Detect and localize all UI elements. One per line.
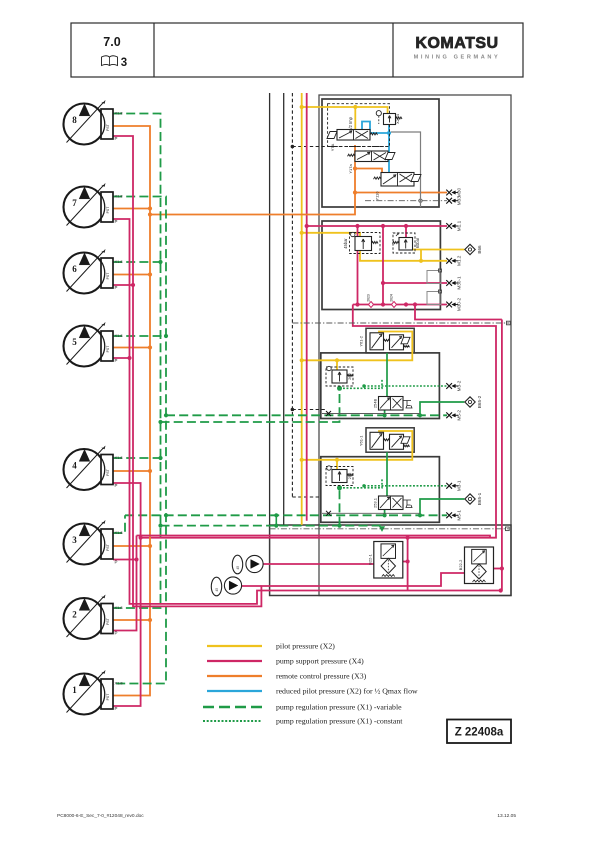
wire X4 pump7 trunk bbox=[113, 219, 501, 604]
svg-text:pump regulation pressure (X1): pump regulation pressure (X1) -variable bbox=[276, 703, 402, 712]
V1 junction p4 bbox=[158, 456, 162, 460]
wire X1 const to 252l bbox=[340, 479, 383, 488]
book icon bbox=[102, 56, 118, 66]
test point M30-1 bbox=[446, 280, 452, 286]
svg-text:13.12.05: 13.12.05 bbox=[497, 813, 516, 819]
X3 junction y620 bbox=[148, 618, 152, 622]
M5-1 junction b bbox=[418, 513, 422, 517]
gray accumulator 1 bbox=[427, 271, 441, 284]
wire X2 wrap Y61-1 bbox=[302, 431, 413, 460]
test point M5-1 bbox=[446, 512, 452, 518]
gray accumulator 2 bbox=[427, 292, 441, 305]
relief valve 45bar bbox=[350, 233, 381, 254]
wire X3 pump stub y208.5 bbox=[113, 208, 150, 210]
test point M5-2 bbox=[446, 412, 452, 418]
wire X1 pump6 stub bbox=[113, 261, 161, 263]
wire X4 mid drop bbox=[382, 226, 384, 305]
closed port lower bbox=[326, 511, 331, 516]
wire X1 const M3-1 bbox=[364, 485, 447, 487]
filter unit B22-2 bbox=[465, 547, 494, 584]
leakage line y529 bbox=[270, 528, 509, 530]
wire X1 254B out bbox=[384, 410, 386, 415]
X3 branch junction bbox=[148, 212, 152, 216]
X4 p3 junction bbox=[134, 557, 138, 561]
wire X3 pump stub y274.5 bbox=[113, 274, 150, 276]
pressure supply block 2 bbox=[322, 221, 440, 310]
M5-1 junction link bbox=[274, 513, 278, 517]
legend reduced pilot line bbox=[207, 690, 262, 692]
header divider 1 bbox=[153, 23, 155, 77]
svg-text:2623: 2623 bbox=[367, 294, 371, 302]
X2 junction e bbox=[300, 358, 304, 362]
wire X2 branch block2 bbox=[302, 233, 447, 261]
svg-text:2624: 2624 bbox=[390, 294, 394, 302]
M30-2 junction a bbox=[355, 302, 359, 306]
svg-text:Z 22408a: Z 22408a bbox=[455, 727, 504, 739]
wire X2half loop bbox=[362, 122, 389, 134]
wire X2 link to M1.2 bbox=[420, 250, 422, 261]
svg-text:M30: M30 bbox=[457, 188, 462, 198]
X2 junction a bbox=[300, 105, 304, 109]
proportional valve Y61-1 bbox=[370, 432, 384, 449]
drain branch to valve 262 bbox=[292, 409, 326, 411]
valve box Y61-1 bbox=[366, 428, 414, 452]
wire X4 trunk bbox=[306, 93, 308, 521]
closed line lower bbox=[322, 512, 420, 514]
wire X4 to M1.1 bbox=[307, 225, 447, 227]
wire X4 down right A bbox=[415, 305, 502, 320]
valve box Y61-2 bbox=[366, 328, 414, 353]
pump 3 bbox=[64, 524, 105, 565]
wire X1 spur B65-2 bbox=[420, 402, 464, 415]
closed port upper bbox=[326, 411, 331, 416]
V2 junction h415 bbox=[164, 413, 168, 417]
svg-text:P: P bbox=[115, 285, 118, 290]
M30-2 junction c bbox=[404, 302, 408, 306]
wire X4 down right B bbox=[141, 305, 496, 538]
gray box block1 bbox=[391, 132, 421, 207]
X3 junction y274.5 bbox=[148, 272, 152, 276]
svg-text:B65-1: B65-1 bbox=[477, 492, 482, 505]
main manifold outer boundary bbox=[319, 95, 511, 596]
wire M30-1 bbox=[383, 282, 447, 284]
wire X4 pump5 stub bbox=[113, 357, 130, 359]
gauge pair 2 bbox=[211, 577, 221, 596]
svg-text:X1.8: X1.8 bbox=[115, 194, 123, 199]
wire X2 drop to Y7A bbox=[354, 107, 356, 130]
X1 y525 junction bbox=[337, 524, 341, 528]
wire X4 pump3-2 trunk bbox=[113, 536, 137, 631]
pressure reducing valve X2/64 bbox=[376, 111, 381, 116]
svg-text:7: 7 bbox=[72, 198, 77, 208]
wire X1 const M3-2 bbox=[364, 385, 447, 387]
closed line upper bbox=[322, 413, 420, 415]
M1.1 junction c bbox=[404, 224, 408, 228]
drain line dashed bbox=[291, 93, 293, 497]
dashed pilot box block1 bbox=[328, 104, 390, 147]
proportional valve Y61-2 bbox=[370, 333, 384, 350]
svg-text:254B: 254B bbox=[372, 398, 377, 408]
tank line T1 bbox=[269, 93, 271, 525]
X2half junction bbox=[387, 131, 391, 135]
V1 junction h2 bbox=[158, 420, 162, 424]
B22 feed junction b bbox=[406, 559, 410, 563]
svg-text:M5-1: M5-1 bbox=[457, 510, 462, 521]
X4 right junction a bbox=[500, 566, 504, 570]
pump 6 bbox=[64, 253, 105, 294]
svg-text:P: P bbox=[115, 706, 118, 711]
svg-text:1/2 Imp: 1/2 Imp bbox=[348, 116, 353, 131]
svg-text:PST: PST bbox=[106, 543, 110, 551]
drawing number box bbox=[447, 720, 511, 744]
V1 junction h525 bbox=[158, 524, 162, 528]
svg-text:M30-1: M30-1 bbox=[457, 276, 462, 290]
X4 p5 junction bbox=[127, 356, 131, 360]
wire X1 branch y422 bbox=[161, 388, 340, 422]
svg-text:M5-2: M5-2 bbox=[457, 410, 462, 421]
drain branch to valve 252 bbox=[292, 496, 320, 498]
wire X3 trunk bbox=[113, 126, 150, 696]
svg-text:X1.8: X1.8 bbox=[115, 530, 123, 535]
svg-text:253.1: 253.1 bbox=[372, 497, 377, 508]
wire X3 pump stub y471 bbox=[113, 470, 150, 472]
wire X3 pump stub y347.5 bbox=[113, 347, 150, 349]
pressure reducing valve 262 bbox=[326, 367, 353, 386]
test point M3-2 bbox=[446, 383, 452, 389]
wire X4 B22-2 right bbox=[492, 568, 502, 570]
svg-text:KOMATSU: KOMATSU bbox=[415, 35, 498, 52]
X3 junction y546 bbox=[148, 544, 152, 548]
measuring line M33 bbox=[365, 200, 447, 202]
X3 junction y471 bbox=[148, 469, 152, 473]
pump 5 bbox=[64, 326, 105, 367]
X3 junction y208.5 bbox=[148, 206, 152, 210]
svg-text:PST: PST bbox=[106, 272, 110, 280]
svg-text:45: 45 bbox=[236, 566, 240, 570]
wire X3 to Y110 bbox=[355, 169, 382, 173]
wire X1 pump4 stub bbox=[113, 457, 161, 459]
test point M3-1 bbox=[446, 483, 452, 489]
legend regulation variable line bbox=[203, 706, 262, 708]
wire X1 pump3 riser bbox=[113, 515, 125, 533]
svg-text:Y17a: Y17a bbox=[348, 164, 353, 174]
svg-text:B22-2: B22-2 bbox=[458, 559, 463, 570]
M1.1 junction a bbox=[355, 224, 359, 228]
drain junction 2 bbox=[291, 408, 295, 412]
svg-text:PST: PST bbox=[106, 468, 110, 476]
wire X4 B22-1 right stub bbox=[403, 561, 408, 563]
pump 2 bbox=[64, 598, 105, 639]
X1 y525 end arrow bbox=[380, 527, 385, 531]
leakage line y529 port bbox=[506, 527, 510, 531]
M5-1 junction a bbox=[383, 513, 387, 517]
tank line T2 bbox=[283, 93, 285, 525]
svg-text:B65-2: B65-2 bbox=[477, 395, 482, 408]
svg-text:P: P bbox=[115, 483, 118, 488]
wire X1 trunk V1 bbox=[113, 114, 161, 609]
wire X1 trunk V2 bbox=[113, 197, 166, 684]
regulation block upper bbox=[321, 353, 440, 419]
leakage line y323 port bbox=[507, 321, 511, 325]
solenoid valve Y17a bbox=[355, 151, 388, 162]
orifice 2623 bbox=[368, 302, 373, 308]
svg-text:reduced pilot pressure (X2) fo: reduced pilot pressure (X2) for ½ Qmax f… bbox=[276, 687, 418, 696]
X2 junction d bbox=[419, 259, 423, 263]
legend pilot pressure line bbox=[207, 645, 262, 647]
wire X2half from valve X2/64 bbox=[388, 124, 390, 133]
leakage line y323 bbox=[292, 322, 509, 324]
wire X2 trunk bbox=[301, 93, 303, 525]
wire X4 gauge1 line bbox=[263, 563, 374, 565]
svg-text:M1.2: M1.2 bbox=[457, 255, 462, 266]
svg-text:X1.8: X1.8 bbox=[115, 605, 123, 610]
wire X3 to M30 bbox=[355, 192, 447, 194]
svg-text:5: 5 bbox=[72, 337, 77, 347]
svg-text:M1.1: M1.1 bbox=[457, 220, 462, 231]
X1 junction Y61-1 zone bbox=[337, 485, 342, 490]
pressure switch B66 bbox=[465, 244, 475, 254]
svg-text:X1.8: X1.8 bbox=[115, 111, 123, 116]
solenoid valve Y7A bbox=[337, 130, 370, 141]
X1 junction Y61-2 zone bbox=[337, 386, 342, 391]
svg-text:MINING GERMANY: MINING GERMANY bbox=[414, 55, 501, 61]
svg-text:P: P bbox=[115, 358, 118, 363]
svg-text:PST: PST bbox=[106, 345, 110, 353]
svg-text:P: P bbox=[115, 560, 118, 565]
svg-text:PC8000-6-E_Sec_7-0_#12048_rev0: PC8000-6-E_Sec_7-0_#12048_rev0.doc bbox=[57, 813, 144, 819]
B22 feed junction a bbox=[406, 536, 410, 540]
svg-text:pilot pressure (X2): pilot pressure (X2) bbox=[276, 642, 335, 651]
M33 port circle bbox=[419, 199, 422, 202]
wire X3 into block1 bbox=[150, 145, 355, 215]
M30-2 junction b bbox=[381, 302, 385, 306]
test point M1.2 bbox=[446, 258, 452, 264]
wire X2half to Y110 bbox=[388, 133, 390, 173]
wire X4 drop 60bar bbox=[405, 226, 407, 238]
svg-text:PST: PST bbox=[106, 617, 110, 625]
wire X4 y535 line bbox=[137, 536, 491, 538]
wire X2 drop to 252 bbox=[336, 460, 338, 470]
X2 junction c bbox=[300, 231, 304, 235]
test point M30 bbox=[446, 190, 452, 196]
svg-text:M3-2: M3-2 bbox=[457, 380, 462, 391]
svg-text:P: P bbox=[115, 136, 118, 141]
wire X1 spur B65-1 bbox=[420, 499, 464, 515]
svg-text:3: 3 bbox=[72, 535, 77, 545]
test point M30-2 bbox=[446, 302, 452, 308]
pump 8 bbox=[64, 104, 105, 145]
svg-text:P: P bbox=[115, 219, 118, 224]
svg-text:M30-2: M30-2 bbox=[457, 297, 462, 311]
svg-text:X1.8: X1.8 bbox=[115, 333, 123, 338]
M30-2 junction d bbox=[413, 302, 417, 306]
wire X1 M5-2 line bbox=[166, 414, 447, 416]
X4 p4 junction bbox=[139, 536, 143, 540]
M1.1 junction b bbox=[381, 224, 385, 228]
V2 junction p5 bbox=[164, 334, 168, 338]
svg-text:X1.8: X1.8 bbox=[115, 455, 123, 460]
wire X2 from 60bar valve bbox=[413, 249, 465, 251]
bottom control box bbox=[270, 525, 511, 596]
X3 junction y347.5 bbox=[148, 345, 152, 349]
svg-text:Y7A: Y7A bbox=[330, 143, 335, 151]
svg-text:1: 1 bbox=[72, 685, 77, 695]
wire M30-2 header bbox=[353, 304, 447, 306]
svg-text:remote control pressure (X3): remote control pressure (X3) bbox=[276, 672, 367, 681]
wire X1 riser Y61-1 bbox=[339, 488, 341, 526]
wire X1 link 515-525 bbox=[275, 515, 277, 525]
wire X1 Y61-2 to 254B bbox=[386, 353, 388, 397]
svg-text:60bar: 60bar bbox=[415, 237, 420, 248]
X2 junction g bbox=[300, 458, 304, 462]
svg-text:pump support pressure (X4): pump support pressure (X4) bbox=[276, 657, 364, 666]
wire X1 const to 252u bbox=[340, 380, 383, 389]
svg-text:3: 3 bbox=[121, 57, 127, 69]
wire X2 wrap Y61-2 bbox=[302, 332, 413, 361]
svg-text:X1.8: X1.8 bbox=[115, 681, 123, 686]
legend regulation constant line bbox=[203, 720, 262, 722]
wire 45bar out bbox=[357, 251, 359, 305]
svg-text:262: 262 bbox=[347, 372, 352, 379]
directional valve 254B bbox=[379, 397, 404, 411]
M30-1 junction bbox=[381, 281, 385, 285]
wire X4 B22-1 feed bbox=[407, 538, 409, 591]
directional valve 253.1 bbox=[379, 496, 404, 510]
wire X2 branch block1 bbox=[302, 107, 388, 114]
svg-text:X1.8: X1.8 bbox=[115, 259, 123, 264]
wire X1 Y61-1 to 253.1 bbox=[386, 452, 388, 496]
wire X4 gauge2 line bbox=[242, 585, 262, 587]
wire X3 pump stub y546 bbox=[113, 545, 150, 547]
X2 junction f bbox=[335, 358, 339, 362]
V1 junction p6 bbox=[158, 260, 162, 264]
svg-text:Y110: Y110 bbox=[374, 191, 379, 201]
wire X4 pump8 trunk bbox=[113, 136, 465, 606]
pump 4 bbox=[64, 449, 105, 490]
svg-text:M33: M33 bbox=[457, 196, 462, 206]
X3 junction in block a bbox=[353, 190, 357, 194]
pump 1 bbox=[64, 674, 105, 715]
V2 junction h515 bbox=[164, 513, 168, 517]
X2 junction b bbox=[353, 105, 357, 109]
svg-text:2: 2 bbox=[72, 610, 77, 620]
wire X1 M5-1 line bbox=[125, 514, 447, 516]
svg-text:M3-1: M3-1 bbox=[457, 480, 462, 491]
legend pump support line bbox=[207, 660, 262, 662]
wire X1 253.1 out bbox=[384, 510, 386, 516]
filter unit B22-1 bbox=[374, 542, 403, 579]
gauge pair 1 bbox=[232, 555, 242, 574]
X3 junction in block b bbox=[353, 166, 357, 170]
svg-text:45: 45 bbox=[215, 588, 219, 592]
svg-text:PST: PST bbox=[106, 693, 110, 701]
svg-text:PST: PST bbox=[106, 206, 110, 214]
solenoid valve Y110 bbox=[381, 173, 414, 187]
svg-text:45bar: 45bar bbox=[343, 238, 348, 249]
svg-text:X2/64: X2/64 bbox=[396, 114, 400, 124]
wire X3 pump stub y620 bbox=[113, 619, 150, 621]
pressure switch B65-1 bbox=[465, 494, 475, 504]
header frame bbox=[71, 23, 523, 77]
svg-text:6: 6 bbox=[72, 264, 77, 274]
X4 right junction b bbox=[499, 588, 503, 592]
svg-text:Y61-1: Y61-1 bbox=[359, 435, 364, 446]
X2 junction h bbox=[335, 458, 339, 462]
wire X1 pump5 stub bbox=[113, 335, 166, 337]
svg-text:PST: PST bbox=[106, 123, 110, 131]
svg-text:4: 4 bbox=[72, 461, 77, 471]
relief valve 60bar bbox=[393, 233, 415, 253]
wire X4 pump4-1 trunk bbox=[113, 483, 141, 706]
svg-text:252: 252 bbox=[347, 472, 352, 479]
orifice 2624 bbox=[391, 302, 396, 308]
wire X4 pump6 stub bbox=[113, 284, 133, 286]
wire X4 pump3 stub bbox=[113, 559, 137, 561]
pressure switch B65-2 bbox=[465, 397, 475, 407]
wire X4 drop 45bar bbox=[357, 226, 359, 237]
header divider 2 bbox=[392, 23, 394, 77]
drain junction bbox=[291, 145, 295, 149]
X4 trunk junction bbox=[305, 224, 309, 228]
svg-text:P: P bbox=[115, 631, 118, 636]
test point M33 bbox=[446, 198, 452, 204]
wire X1 branch y525 bbox=[161, 525, 383, 527]
regulation block lower bbox=[321, 457, 440, 523]
X4 p6 junction bbox=[131, 283, 135, 287]
svg-text:B66: B66 bbox=[477, 245, 482, 254]
wire X4 right edge drop bbox=[501, 320, 503, 591]
svg-text:7.0: 7.0 bbox=[103, 35, 120, 49]
X1 link junction bbox=[274, 524, 278, 528]
drain branch to block1 bbox=[292, 146, 389, 148]
svg-text:8: 8 bbox=[72, 115, 77, 125]
svg-text:B22-1: B22-1 bbox=[367, 553, 372, 564]
wire X2 drop to 262 bbox=[336, 360, 338, 370]
pump 7 bbox=[64, 187, 105, 228]
svg-text:Y61-2: Y61-2 bbox=[359, 335, 364, 346]
legend remote control line bbox=[207, 675, 262, 677]
M5-2 junction b bbox=[418, 413, 422, 417]
pump control block 1 bbox=[322, 99, 439, 207]
pressure reducing valve 252 bbox=[326, 467, 353, 486]
svg-text:pump regulation pressure (X1): pump regulation pressure (X1) -constant bbox=[276, 717, 403, 726]
M5-2 junction a bbox=[383, 413, 387, 417]
test point M1.1 bbox=[446, 223, 452, 229]
